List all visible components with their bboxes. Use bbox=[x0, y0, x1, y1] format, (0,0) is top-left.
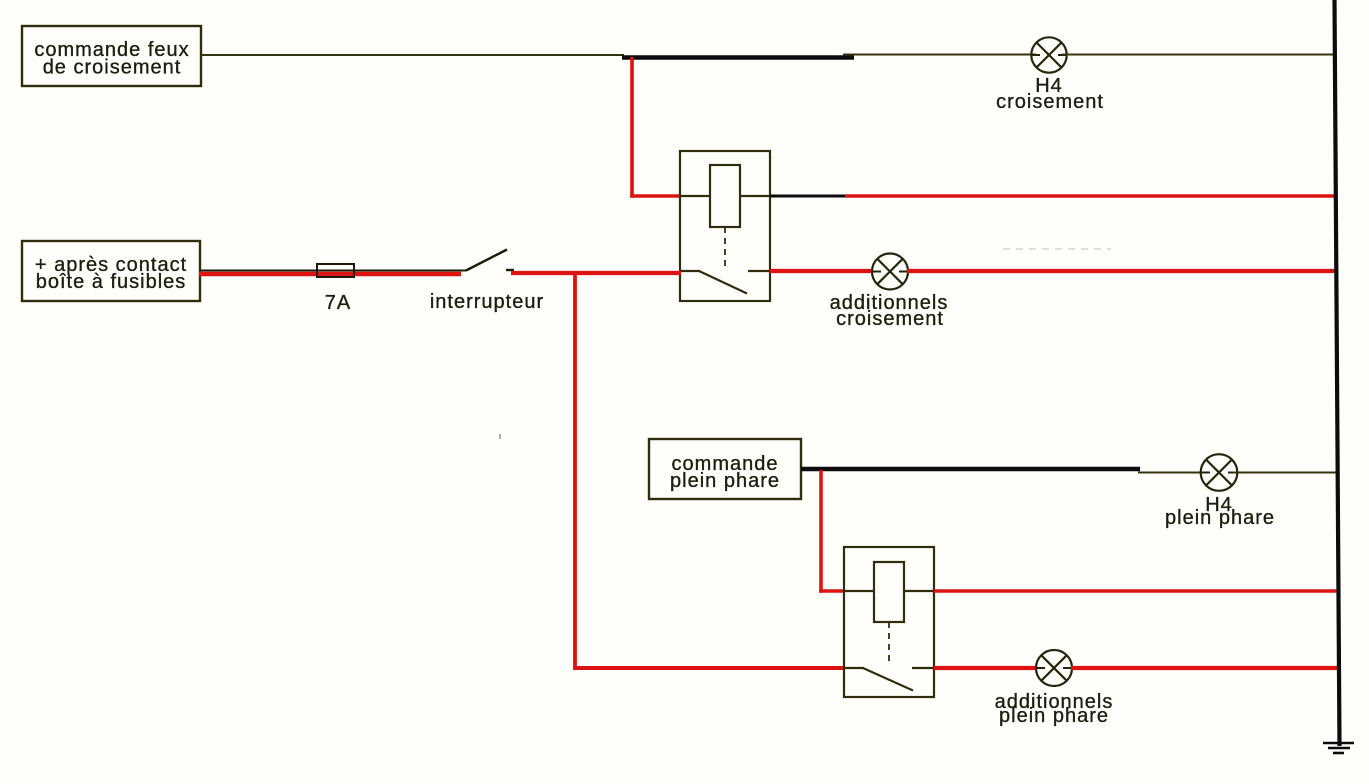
wire red lamp to bus bbox=[907, 269, 1335, 273]
relay K1 bbox=[680, 151, 770, 301]
fuse 7A bbox=[317, 264, 354, 314]
svg-text:plein phare: plein phare bbox=[1165, 507, 1275, 529]
box commande plein phare bbox=[649, 439, 801, 499]
box commande feux de croisement bbox=[22, 26, 201, 86]
wire red lamp to bus bottom bbox=[1071, 666, 1338, 670]
wire thick black plein phare bbox=[801, 467, 1140, 472]
svg-text:boîte à fusibles: boîte à fusibles bbox=[36, 271, 187, 293]
artifact faint dashes bbox=[1003, 248, 1111, 250]
ground symbol bbox=[1323, 743, 1354, 753]
box + après contact boîte à fusibles bbox=[22, 241, 200, 301]
lamp H4 plein phare bbox=[1165, 454, 1275, 529]
svg-text:7A: 7A bbox=[325, 292, 351, 314]
wire red drop to relay K2 coil bbox=[819, 470, 845, 593]
wire red K1 coil to bus bbox=[845, 194, 1336, 198]
wire olive to lamp H4 plein phare bbox=[1138, 472, 1206, 474]
wire red from box to switch bbox=[199, 272, 461, 277]
wire red K2 coil to bus bbox=[934, 589, 1338, 593]
wire black thin to switch bbox=[201, 270, 466, 272]
wire top thick black bbox=[622, 55, 854, 60]
wire top olive right bbox=[843, 54, 1036, 56]
ground bus vertical bbox=[1335, 0, 1340, 746]
switch interrupteur bbox=[430, 250, 544, 314]
relay K2 bbox=[844, 547, 934, 697]
artifact speck bbox=[499, 434, 501, 439]
lamp additionnels croisement bbox=[830, 254, 949, 331]
svg-text:croisement: croisement bbox=[836, 308, 944, 330]
lamp additionnels plein phare bbox=[995, 650, 1114, 727]
lamp H4 croisement bbox=[996, 37, 1104, 113]
wire top olive to bus bbox=[1062, 54, 1335, 56]
svg-text:plein phare: plein phare bbox=[999, 705, 1109, 727]
wire red switch to relay K1 bbox=[511, 271, 681, 275]
wire red long vertical feed bbox=[573, 271, 845, 670]
svg-text:plein phare: plein phare bbox=[670, 470, 780, 492]
svg-text:de croisement: de croisement bbox=[43, 57, 182, 79]
svg-text:croisement: croisement bbox=[996, 91, 1104, 113]
wire top olive left bbox=[201, 54, 624, 56]
wire red drop to relay K1 coil bbox=[630, 57, 681, 198]
wire black from K1 coil right bbox=[770, 195, 847, 198]
wire red K2 contact to lamp bbox=[934, 666, 1037, 670]
wire olive lamp to bus bbox=[1233, 472, 1336, 474]
svg-text:interrupteur: interrupteur bbox=[430, 291, 544, 313]
wire red K1 contact to lamp bbox=[770, 269, 873, 273]
